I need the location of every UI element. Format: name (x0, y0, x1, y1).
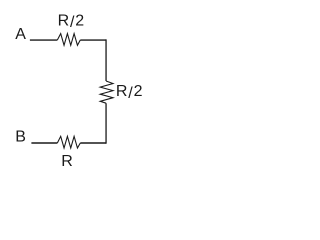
wire bottom-right horizontal (80, 142, 106, 144)
svg-text:A: A (15, 26, 26, 43)
svg-text:R/2: R/2 (116, 83, 143, 102)
resistor R/2 vertical (100, 81, 113, 103)
wire A stub (30, 39, 57, 41)
svg-text:R: R (61, 153, 73, 170)
svg-text:B: B (15, 129, 26, 146)
resistor R/2 top (57, 34, 80, 46)
wire vertical upper (105, 39, 107, 81)
wire bottom-right with corner (105, 103, 107, 144)
wire B stub (31, 142, 57, 144)
svg-text:R/2: R/2 (58, 12, 85, 31)
resistor R bottom (57, 136, 80, 148)
wire top-right with corner (80, 39, 106, 41)
